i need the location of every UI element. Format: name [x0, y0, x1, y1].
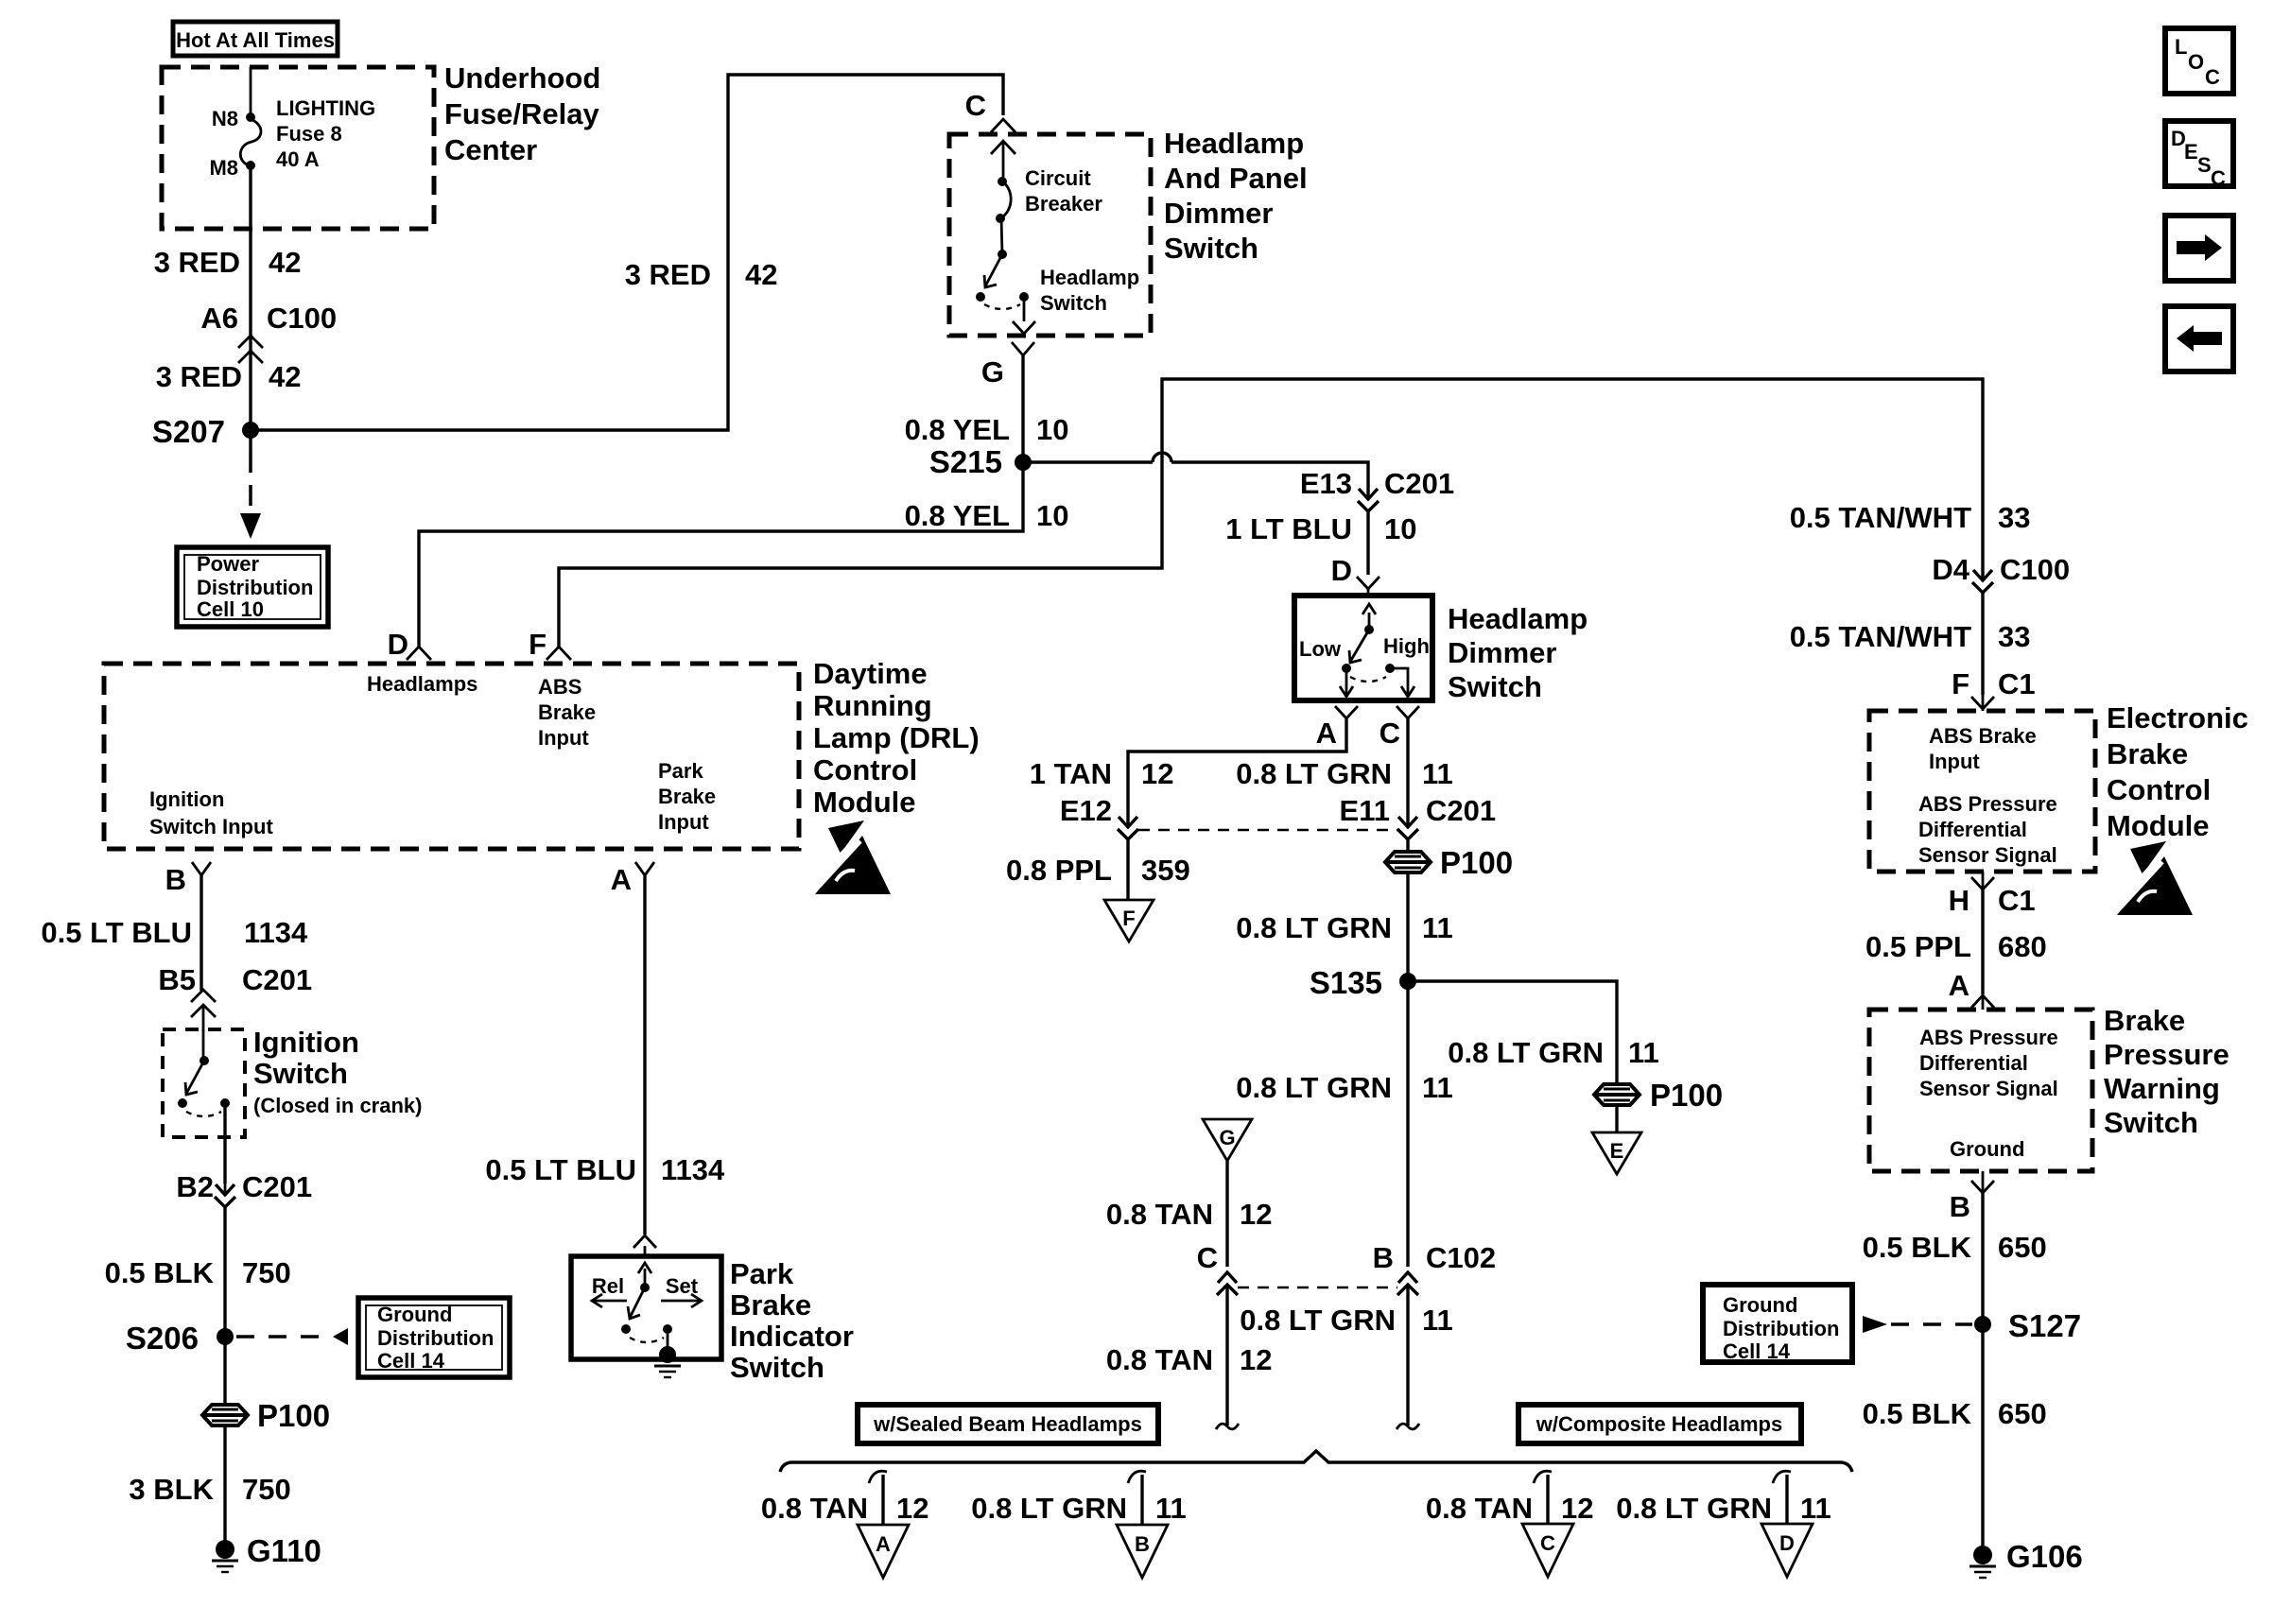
svg-text:Pressure: Pressure: [2104, 1038, 2230, 1071]
warning switch pin name: ABS Pressure Differential Sensor Signal: [1919, 1026, 2058, 1100]
svg-text:Rel: Rel: [592, 1274, 624, 1298]
svg-text:0.8 TAN: 0.8 TAN: [1106, 1343, 1213, 1376]
wire: ignition switch down to B2: [223, 1103, 226, 1183]
wire: S207 right, up and over to headlamp switch C: [251, 75, 1003, 430]
svg-text:A: A: [876, 1532, 891, 1556]
wire: headlamp switch output G: [1013, 297, 1035, 334]
svg-text:Breaker: Breaker: [1025, 192, 1102, 216]
pin A of DRL module: [611, 862, 654, 896]
svg-text:Differential: Differential: [1918, 818, 2027, 841]
svg-text:Cell 14: Cell 14: [1723, 1339, 1791, 1363]
svg-text:Daytime: Daytime: [813, 657, 928, 690]
svg-text:ABS Brake: ABS Brake: [1929, 724, 2037, 748]
wire: P100 down to G110: [223, 1425, 226, 1543]
component box: Daytime Running Lamp (DRL) Control Module (dashed): [104, 664, 799, 849]
nav box: DESC: [2165, 121, 2233, 190]
dashed connector line C201: [1138, 829, 1397, 831]
label: Daytime Running Lamp (DRL) Control Module: [813, 657, 980, 819]
svg-text:E11: E11: [1340, 794, 1390, 827]
svg-text:Ground: Ground: [1723, 1293, 1797, 1317]
component box: Underhood Fuse/Relay Center (dashed): [162, 67, 434, 229]
svg-text:750: 750: [242, 1256, 291, 1289]
label: Brake Pressure Warning Switch: [2104, 1004, 2230, 1139]
svg-text:Center: Center: [444, 133, 537, 166]
svg-text:E: E: [2184, 140, 2198, 164]
nav box: arrow left: [2165, 306, 2233, 371]
svg-text:Lamp (DRL): Lamp (DRL): [813, 721, 980, 754]
off-page triangle B: [1117, 1525, 1168, 1578]
value label: 0.5 BLK 750: [105, 1256, 291, 1289]
svg-text:High: High: [1383, 634, 1430, 658]
svg-text:w/Composite Headlamps: w/Composite Headlamps: [1536, 1412, 1782, 1436]
svg-text:Ignition: Ignition: [253, 1026, 359, 1059]
svg-text:12: 12: [1240, 1198, 1272, 1231]
connector C102 pin C: [1197, 1241, 1238, 1295]
svg-text:Brake: Brake: [538, 700, 596, 724]
svg-text:S206: S206: [126, 1321, 199, 1356]
svg-text:Park: Park: [730, 1257, 794, 1290]
wire: S215 right with hop to E13: [1023, 453, 1368, 499]
svg-text:Dimmer: Dimmer: [1448, 636, 1556, 669]
svg-text:And Panel: And Panel: [1164, 162, 1308, 195]
connector C102 pin B: [1373, 1241, 1497, 1295]
svg-text:ABS Pressure: ABS Pressure: [1918, 792, 2057, 816]
value label: 0.8 LT GRN 11 (right branch): [1448, 1036, 1659, 1069]
svg-text:A6: A6: [200, 302, 238, 335]
component box: Headlamp Dimmer Switch: [1294, 596, 1432, 700]
off-page triangle G: [1203, 1119, 1252, 1161]
drop wire A with curl: [869, 1471, 887, 1525]
dashed wire: S207 down to Power Distribution: [240, 430, 261, 539]
drop wire B with curl: [1128, 1471, 1146, 1525]
svg-text:Distribution: Distribution: [197, 576, 313, 599]
ground G106: [1969, 1539, 2083, 1578]
pin F of DRL module: [529, 628, 571, 661]
svg-text:Differential: Differential: [1919, 1051, 2028, 1075]
pin C of headlamp switch: [965, 89, 1015, 181]
svg-text:3 RED: 3 RED: [154, 246, 240, 279]
label box: w/Sealed Beam Headlamps: [858, 1405, 1158, 1443]
svg-text:C1: C1: [1998, 667, 2036, 700]
svg-text:1 LT BLU: 1 LT BLU: [1225, 512, 1352, 545]
svg-text:Underhood: Underhood: [444, 61, 600, 95]
value label: 3 RED 42 (middle run): [625, 258, 778, 291]
svg-text:11: 11: [1800, 1492, 1831, 1525]
ESD symbol (DRL): [815, 821, 891, 894]
svg-text:Module: Module: [813, 786, 916, 819]
splice S215: [929, 444, 1032, 479]
drop wire C with curl: [1534, 1471, 1552, 1524]
svg-text:C201: C201: [242, 963, 312, 996]
svg-text:M8: M8: [209, 156, 238, 180]
wire to F triangle: [1126, 839, 1129, 900]
svg-text:0.8 TAN: 0.8 TAN: [1106, 1198, 1213, 1231]
svg-text:750: 750: [242, 1473, 291, 1506]
svg-text:0.8 YEL: 0.8 YEL: [905, 499, 1010, 532]
svg-text:Ignition: Ignition: [149, 787, 224, 811]
svg-text:11: 11: [1422, 911, 1453, 944]
svg-text:Headlamps: Headlamps: [367, 672, 477, 696]
component box: Headlamp And Panel Dimmer Switch (dashed): [949, 134, 1151, 336]
svg-text:0.8 TAN: 0.8 TAN: [1426, 1492, 1533, 1525]
svg-text:P100: P100: [1650, 1078, 1723, 1113]
splice S127: [1974, 1308, 2081, 1343]
svg-text:1134: 1134: [244, 916, 308, 949]
svg-text:33: 33: [1998, 620, 2030, 653]
nav box: LOC: [2165, 28, 2233, 94]
svg-text:Park: Park: [658, 759, 703, 783]
value label: 0.8 LT GRN 11 (drop D): [1616, 1492, 1831, 1525]
svg-text:ABS: ABS: [538, 675, 581, 699]
svg-text:C102: C102: [1426, 1241, 1496, 1274]
value label: 0.5 TAN/WHT 33: [1790, 501, 2031, 534]
svg-text:Switch: Switch: [730, 1351, 824, 1384]
pin D of dimmer switch: [1331, 554, 1379, 596]
wire: G triangle down to C102 pin C: [1225, 1161, 1228, 1267]
value label: 3 RED 42: [156, 360, 302, 393]
svg-text:650: 650: [1998, 1231, 2047, 1264]
svg-text:C201: C201: [242, 1170, 312, 1203]
ground G110: [212, 1533, 321, 1572]
svg-text:0.8 LT GRN: 0.8 LT GRN: [1236, 1071, 1392, 1104]
wire: S215 down and left to DRL pin D: [419, 462, 1023, 647]
bracket line over headlamp drops: [780, 1451, 1852, 1472]
value label: 0.8 LT GRN 11: [1236, 757, 1453, 790]
wire: S135 down to C102 pin B: [1406, 981, 1409, 1267]
dimmer switch contacts Low/High: [1299, 604, 1430, 697]
svg-text:w/Sealed Beam Headlamps: w/Sealed Beam Headlamps: [873, 1412, 1142, 1436]
connector B2 C201: [176, 1170, 312, 1207]
svg-text:Cell 14: Cell 14: [377, 1349, 445, 1373]
ECBM pin name: ABS Pressure Differential Sensor Signal: [1918, 792, 2057, 867]
svg-text:10: 10: [1036, 413, 1068, 446]
svg-text:G: G: [981, 355, 1004, 389]
svg-text:Power: Power: [197, 552, 259, 576]
svg-text:12: 12: [1240, 1343, 1272, 1376]
svg-text:Fuse 8: Fuse 8: [276, 122, 342, 146]
pin D of DRL module: [388, 628, 431, 661]
svg-text:Brake: Brake: [2104, 1004, 2185, 1037]
label: Electronic Brake Control Module: [2107, 701, 2248, 842]
ECBM pin name: ABS Brake Input: [1929, 724, 2037, 773]
nav box: arrow right: [2165, 216, 2233, 281]
svg-text:Control: Control: [2107, 773, 2211, 806]
connector A6 C100 (in-line, chevrons up): [200, 302, 337, 363]
svg-text:42: 42: [269, 246, 301, 279]
svg-text:11: 11: [1628, 1036, 1659, 1069]
svg-text:C: C: [1540, 1531, 1555, 1555]
svg-text:D: D: [1779, 1531, 1795, 1555]
svg-text:Sensor Signal: Sensor Signal: [1918, 843, 2057, 867]
wire: S135 right branch to P100 and E: [1408, 981, 1617, 1084]
svg-text:Distribution: Distribution: [1723, 1317, 1839, 1340]
svg-text:11: 11: [1422, 1304, 1453, 1337]
svg-text:0.8 LT GRN: 0.8 LT GRN: [1240, 1304, 1396, 1337]
svg-text:Indicator: Indicator: [730, 1320, 854, 1353]
svg-text:(Closed in crank): (Closed in crank): [253, 1094, 422, 1117]
svg-text:Switch: Switch: [1448, 670, 1542, 703]
svg-text:Sensor Signal: Sensor Signal: [1919, 1077, 2058, 1100]
svg-text:0.5 TAN/WHT: 0.5 TAN/WHT: [1790, 501, 1971, 534]
svg-text:G: G: [1219, 1126, 1235, 1149]
svg-text:B2: B2: [176, 1170, 214, 1203]
label: Underhood Fuse/Relay Center: [444, 61, 600, 166]
svg-text:12: 12: [896, 1492, 928, 1525]
value label: 0.5 LT BLU 1134: [41, 916, 308, 949]
wire: fuse output down to S207: [249, 167, 252, 430]
svg-text:Ground: Ground: [377, 1303, 452, 1326]
connector E11 C201: [1340, 794, 1497, 839]
value label: 1 LT BLU 10: [1225, 512, 1416, 545]
off-page triangle D: [1761, 1524, 1813, 1577]
off-page triangle F: [1104, 900, 1154, 942]
svg-text:0.5 PPL: 0.5 PPL: [1865, 930, 1971, 963]
svg-text:Circuit: Circuit: [1025, 166, 1091, 190]
value label: 0.8 LT GRN 11: [1236, 1071, 1453, 1104]
connector B5 C201: [158, 963, 312, 1031]
svg-text:Headlamp: Headlamp: [1040, 266, 1139, 289]
value label: 0.5 PPL 680: [1865, 930, 2047, 963]
svg-text:0.8 PPL: 0.8 PPL: [1006, 854, 1112, 887]
svg-text:F: F: [529, 628, 547, 661]
label: Headlamp Dimmer Switch: [1448, 602, 1588, 703]
svg-text:F: F: [1952, 667, 1969, 700]
svg-text:1 TAN: 1 TAN: [1030, 757, 1112, 790]
svg-text:Running: Running: [813, 689, 932, 722]
value label: 0.8 LT GRN 11: [1240, 1304, 1453, 1337]
label: Ignition Switch (Closed in crank): [253, 1026, 422, 1117]
wire: right loop from upper corner to ECBM and DRL pin F: [559, 379, 1983, 647]
grommet P100 (right): [1594, 1078, 1723, 1113]
svg-text:C100: C100: [267, 302, 337, 335]
svg-text:Input: Input: [658, 810, 709, 834]
svg-text:Low: Low: [1299, 637, 1342, 661]
svg-text:12: 12: [1141, 757, 1173, 790]
svg-text:C201: C201: [1384, 467, 1454, 500]
grommet P100 (center): [1385, 845, 1513, 880]
svg-text:1134: 1134: [661, 1153, 725, 1186]
svg-text:0.8 LT GRN: 0.8 LT GRN: [1236, 911, 1392, 944]
pin connector into park brake switch: [633, 1235, 656, 1256]
splice S207: [152, 414, 259, 449]
svg-text:11: 11: [1155, 1492, 1187, 1525]
wire: DRL A down to park brake switch: [643, 875, 646, 1235]
pin C of dimmer switch: [1379, 706, 1419, 750]
value label: 0.8 YEL 10: [905, 413, 1069, 446]
ignition switch contacts: [178, 1029, 230, 1116]
wire: S127 down to G106: [1981, 1324, 1984, 1548]
svg-text:A: A: [611, 863, 632, 896]
svg-text:B: B: [1135, 1532, 1150, 1556]
splice S206: [126, 1321, 234, 1356]
svg-text:10: 10: [1036, 499, 1068, 532]
svg-text:650: 650: [1998, 1397, 2047, 1430]
svg-text:Brake: Brake: [730, 1288, 811, 1322]
svg-text:0.8 LT GRN: 0.8 LT GRN: [1236, 757, 1392, 790]
svg-text:680: 680: [1998, 930, 2047, 963]
svg-text:N8: N8: [212, 107, 238, 130]
svg-text:B: B: [1373, 1241, 1394, 1274]
svg-text:0.5 BLK: 0.5 BLK: [1863, 1231, 1972, 1264]
svg-text:B: B: [1950, 1190, 1970, 1223]
value label: 0.8 TAN 12: [1106, 1343, 1273, 1376]
svg-text:Module: Module: [2107, 809, 2210, 842]
svg-text:Brake: Brake: [2107, 737, 2188, 770]
DRL pin name: Park Brake Input: [658, 759, 716, 834]
connector D4 C100: [1932, 553, 2070, 695]
svg-text:Switch Input: Switch Input: [149, 815, 273, 838]
svg-text:O: O: [2188, 50, 2204, 74]
ground symbol at park brake switch: [654, 1346, 681, 1377]
DRL pin name: Ignition Switch Input: [149, 787, 273, 838]
splice S135: [1310, 965, 1416, 1000]
drop wire D with curl: [1773, 1471, 1791, 1524]
value label: 0.8 LT GRN 11: [1236, 911, 1453, 944]
value label: 1 TAN 12: [1030, 757, 1174, 790]
pin G connector: [981, 342, 1034, 462]
svg-text:Hot At All Times: Hot At All Times: [176, 28, 335, 52]
svg-text:42: 42: [745, 258, 777, 291]
value label: 0.5 BLK 650: [1863, 1231, 2047, 1264]
wire: dimmer A low beam down-left to E12: [1128, 718, 1346, 827]
off-page triangle E: [1592, 1132, 1641, 1174]
svg-text:D4: D4: [1932, 553, 1969, 586]
dashed reference arrow to Ground Distribution: [236, 1328, 348, 1345]
svg-text:Input: Input: [1929, 750, 1980, 773]
svg-text:S207: S207: [152, 414, 225, 449]
DRL pin name: ABS Brake Input: [538, 675, 596, 750]
wire: S206 down to P100: [223, 1337, 226, 1405]
svg-text:A: A: [1949, 969, 1969, 1002]
dashed reference arrow from Ground Distribution to S127: [1863, 1316, 1972, 1333]
svg-text:Input: Input: [538, 726, 589, 750]
svg-text:0.5 LT BLU: 0.5 LT BLU: [485, 1153, 636, 1186]
svg-text:S135: S135: [1310, 965, 1382, 1000]
component box: Ignition Switch (dashed): [163, 1029, 245, 1137]
wire below C102 pin C with break squiggle: [1216, 1285, 1239, 1429]
wire: B2 down to S206: [223, 1207, 226, 1337]
svg-text:0.5 BLK: 0.5 BLK: [105, 1256, 215, 1289]
reference box: Ground Distribution Cell 14 (left): [358, 1298, 510, 1377]
svg-text:C: C: [1197, 1241, 1218, 1274]
svg-text:0.8 YEL: 0.8 YEL: [905, 413, 1010, 446]
pin H C1 of ECBM: [1949, 872, 2036, 994]
value label: 0.8 YEL 10 (below S215): [905, 499, 1069, 532]
svg-text:0.5 BLK: 0.5 BLK: [1863, 1397, 1972, 1430]
wire below C102 pin B with break squiggle: [1397, 1285, 1419, 1429]
component box: Brake Pressure Warning Switch (dashed): [1869, 1010, 2092, 1171]
value label: 0.8 TAN 12 (drop A): [761, 1492, 929, 1525]
svg-text:12: 12: [1561, 1492, 1593, 1525]
value label: 0.8 TAN 12: [1106, 1198, 1273, 1231]
pin B of warning switch: [1950, 1171, 1994, 1318]
value label: 0.5 TAN/WHT 33: [1790, 620, 2031, 653]
value label: 0.8 LT GRN 11 (drop B): [971, 1492, 1187, 1525]
svg-text:C: C: [1379, 717, 1400, 750]
wire to P100: [1406, 839, 1409, 852]
svg-text:Headlamp: Headlamp: [1164, 127, 1304, 160]
connector E13 C201: [1300, 467, 1454, 575]
value label: 0.8 TAN 12 (drop C): [1426, 1492, 1594, 1525]
svg-text:Distribution: Distribution: [377, 1326, 494, 1350]
svg-text:0.8 LT GRN: 0.8 LT GRN: [971, 1492, 1127, 1525]
svg-text:0.8 TAN: 0.8 TAN: [761, 1492, 868, 1525]
svg-text:G110: G110: [247, 1533, 321, 1568]
svg-text:E: E: [1610, 1139, 1624, 1163]
svg-text:0.8 LT GRN: 0.8 LT GRN: [1448, 1036, 1604, 1069]
svg-text:C: C: [2211, 166, 2226, 190]
svg-text:D: D: [388, 628, 408, 661]
value label: 3 BLK 750: [129, 1473, 290, 1506]
headlamp switch contacts: [976, 254, 1139, 315]
svg-text:40 A: 40 A: [276, 147, 320, 171]
wire to E triangle: [1615, 1105, 1618, 1132]
label box: w/Composite Headlamps: [1518, 1405, 1801, 1443]
off-page triangle C: [1522, 1524, 1573, 1577]
value label: 0.8 PPL 359: [1006, 854, 1190, 887]
svg-text:A: A: [1316, 717, 1337, 750]
wire: into fuse from box top: [250, 67, 252, 115]
svg-text:Headlamp: Headlamp: [1448, 602, 1588, 635]
label: Headlamp And Panel Dimmer Switch: [1164, 127, 1308, 265]
component box: Electronic Brake Control Module (dashed): [1869, 711, 2095, 872]
circuit breaker inside headlamp switch: [996, 166, 1102, 259]
svg-text:0.5 TAN/WHT: 0.5 TAN/WHT: [1790, 620, 1971, 653]
wire: dimmer C high beam down to E11: [1406, 718, 1409, 827]
svg-text:359: 359: [1141, 854, 1190, 887]
svg-text:11: 11: [1422, 757, 1453, 790]
wire: P100 down to S135: [1406, 872, 1409, 981]
svg-text:D: D: [1331, 554, 1352, 587]
svg-text:C100: C100: [2000, 553, 2070, 586]
svg-text:Switch: Switch: [1164, 232, 1258, 265]
svg-text:G106: G106: [2006, 1539, 2083, 1574]
svg-text:B: B: [165, 863, 186, 896]
label: Park Brake Indicator Switch: [730, 1257, 854, 1384]
svg-text:LIGHTING: LIGHTING: [276, 96, 375, 120]
svg-text:0.8 LT GRN: 0.8 LT GRN: [1616, 1492, 1772, 1525]
svg-text:Switch: Switch: [2104, 1106, 2198, 1139]
pin A of brake pressure warning switch: [1949, 969, 1994, 1010]
label box: Hot At All Times: [173, 22, 338, 56]
svg-text:33: 33: [1998, 501, 2030, 534]
svg-text:42: 42: [269, 360, 301, 393]
svg-text:Brake: Brake: [658, 785, 716, 808]
off-page triangle A: [858, 1525, 909, 1578]
svg-text:Switch: Switch: [253, 1057, 348, 1090]
pin F C1 of ECBM: [1952, 667, 2036, 711]
reference box: Ground Distribution Cell 14 (right): [1703, 1285, 1852, 1363]
wire: DRL B down to C201: [200, 875, 202, 991]
ESD symbol (ECBM): [2117, 841, 2193, 915]
svg-text:S: S: [2197, 153, 2212, 177]
svg-text:Cell 10: Cell 10: [197, 597, 264, 621]
park brake switch contacts: [592, 1263, 702, 1352]
value label: 0.5 LT BLU 1134: [485, 1153, 725, 1186]
svg-text:Warning: Warning: [2104, 1072, 2220, 1105]
svg-text:C201: C201: [1426, 794, 1496, 827]
svg-text:Switch: Switch: [1040, 291, 1107, 315]
svg-text:Ground: Ground: [1950, 1137, 2024, 1161]
svg-text:10: 10: [1384, 512, 1416, 545]
reference box: Power Distribution Cell 10: [177, 547, 328, 627]
svg-text:11: 11: [1422, 1071, 1453, 1104]
svg-text:S127: S127: [2008, 1308, 2081, 1343]
svg-text:3 RED: 3 RED: [156, 360, 242, 393]
svg-text:H: H: [1949, 884, 1969, 917]
svg-text:3 BLK: 3 BLK: [129, 1473, 214, 1506]
svg-text:0.5 LT BLU: 0.5 LT BLU: [41, 916, 192, 949]
